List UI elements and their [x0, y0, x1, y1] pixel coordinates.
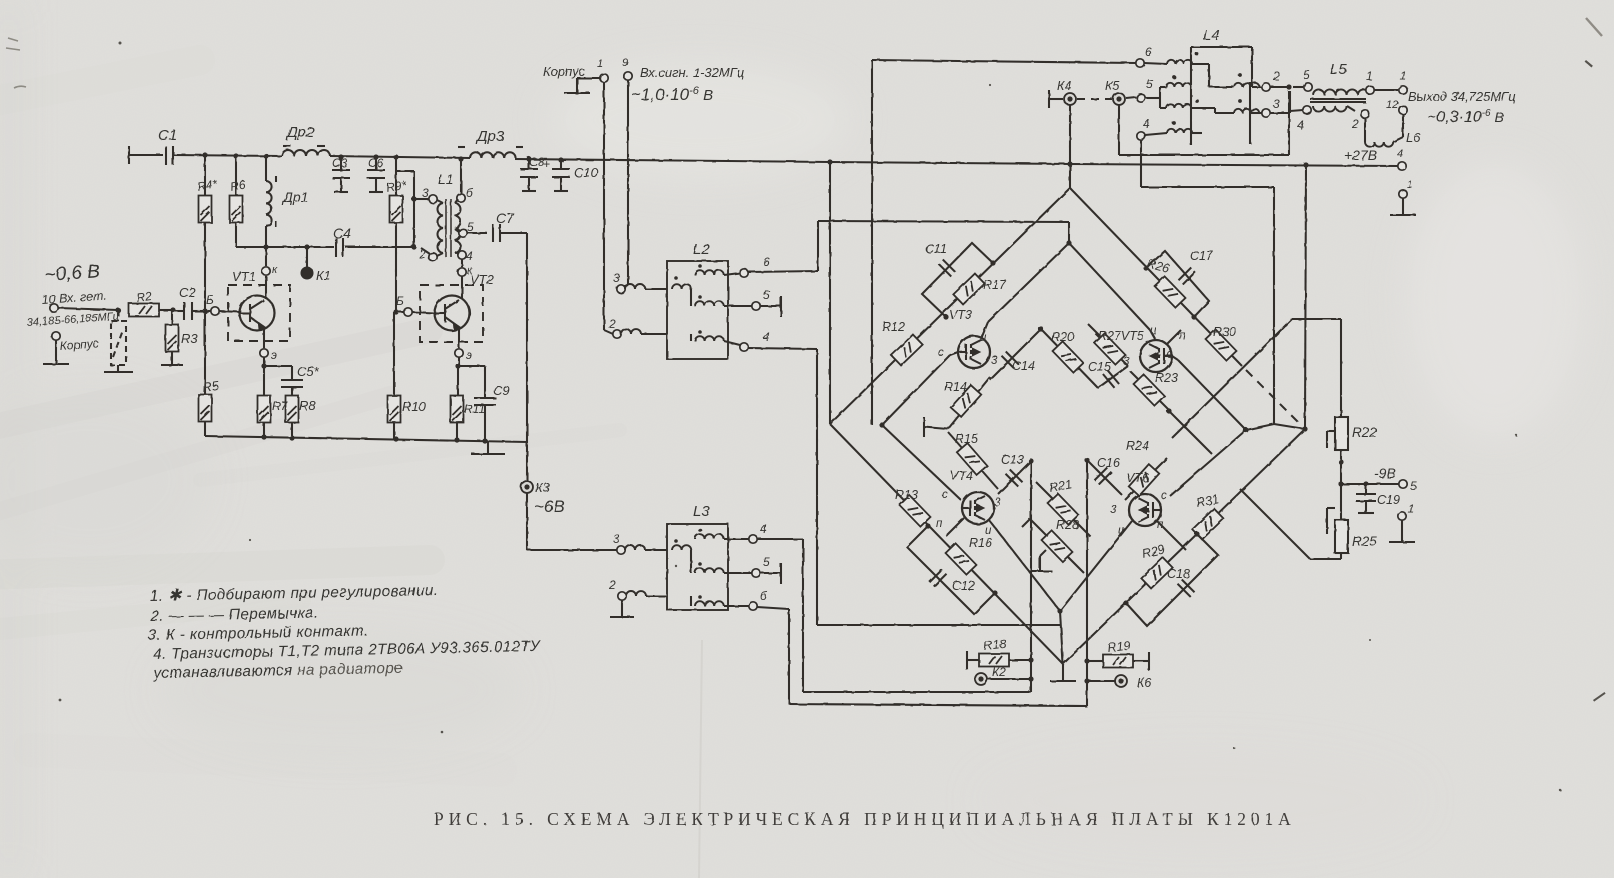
- svg-text:L3: L3: [693, 503, 710, 520]
- wire VT4 drain to bottom vertex: [989, 520, 1063, 614]
- capacitor C5*: [264, 366, 303, 396]
- wire outer edge bottom-right: [1063, 429, 1305, 664]
- svg-text:2. — — — Перемычка.: 2. — — — Перемычка.: [149, 604, 318, 625]
- transformer L5: [1310, 89, 1369, 111]
- svg-text:Выход 34,725МГц: Выход 34,725МГц: [1408, 89, 1516, 104]
- wire L2 pin4 drop: [817, 349, 1060, 625]
- svg-text:VТ3: VТ3: [949, 308, 972, 322]
- resistor R9: [390, 157, 403, 312]
- capacitor C16 chain: [1084, 457, 1122, 495]
- transformer L4 windings: [1166, 47, 1259, 145]
- wire L4 pin6 long drop: [871, 60, 873, 425]
- svg-text:-9В: -9В: [1374, 465, 1396, 481]
- corner scuff marks: [6, 18, 1602, 88]
- svg-text:с: с: [938, 347, 944, 359]
- capacitor C6: [367, 157, 385, 192]
- capacitor C4: [336, 238, 343, 257]
- capacitor C1: [166, 146, 282, 165]
- svg-text:1: 1: [1408, 502, 1415, 516]
- resistor R23 chain: [1130, 371, 1212, 454]
- svg-text:C10: C10: [574, 165, 599, 180]
- output pin 1: [1399, 86, 1407, 94]
- L5 secondary pin 2: [1361, 110, 1369, 142]
- L3 pin 2 with ground: [610, 591, 667, 617]
- svg-text:3: 3: [1110, 504, 1117, 516]
- wire outer edge top-left: [830, 188, 1070, 424]
- resistor R3: [161, 310, 183, 365]
- pin 5 right: [1399, 480, 1407, 488]
- svg-text:3: 3: [613, 532, 620, 546]
- capacitor C13 chain: [998, 458, 1034, 494]
- transformer L1: [437, 199, 460, 257]
- ground bottom vertex: [1050, 664, 1076, 681]
- contact K3: [521, 481, 533, 493]
- wire L4 bottom link: [1119, 91, 1289, 155]
- terminal Korpus top: [564, 74, 608, 93]
- capacitor C17: [1179, 268, 1196, 285]
- svg-text:Др3: Др3: [475, 128, 505, 145]
- svg-text:п: п: [1157, 519, 1164, 531]
- svg-text:C11: C11: [925, 242, 947, 256]
- wire inner edge to VT3: [981, 243, 1069, 339]
- inductor Dr3: [458, 147, 527, 158]
- svg-text:с: с: [1161, 490, 1167, 502]
- svg-text:~1,0·10-6 В: ~1,0·10-6 В: [631, 85, 713, 104]
- node inner top vertex: [1066, 240, 1071, 245]
- svg-text:C9: C9: [493, 383, 510, 398]
- mixer labels group: [882, 27, 1516, 690]
- svg-text:Корпус: Корпус: [59, 336, 99, 353]
- node below R22: [1338, 450, 1343, 520]
- svg-text:R10: R10: [402, 399, 427, 414]
- resistor R8: [286, 396, 299, 438]
- resistor R20 chain: [1041, 329, 1098, 388]
- resistor R21 chain: [1036, 482, 1090, 536]
- wire R22 riser: [1172, 319, 1341, 438]
- svg-text:C14: C14: [1012, 359, 1035, 373]
- svg-text:VT1: VT1: [232, 269, 256, 284]
- contact K5: [1113, 93, 1136, 105]
- resistor R18: [967, 651, 1034, 670]
- L1 pin 3: [411, 195, 443, 203]
- wire bus to +27V pin: [515, 159, 1398, 166]
- resistor R24 chain: [1125, 458, 1167, 500]
- wire inner edge left vertex to VT4: [882, 425, 961, 500]
- svg-text:C2: C2: [179, 285, 196, 300]
- svg-text:и: и: [980, 332, 987, 344]
- wire L3 pin4 path: [803, 461, 1031, 692]
- svg-text:п: п: [936, 518, 943, 530]
- jumper dashed box: [111, 310, 126, 372]
- svg-text:R19: R19: [1107, 639, 1131, 655]
- wire VT5 substrate stub: [1167, 330, 1181, 344]
- svg-text:R22: R22: [1352, 425, 1377, 440]
- L3 pin 5 stub: [724, 563, 781, 584]
- wire VT3 source to left vertex: [879, 352, 958, 428]
- wire right vertex region: [1246, 424, 1308, 432]
- loop capacitor C17 bypass: [1143, 251, 1209, 320]
- svg-text:L6: L6: [1406, 130, 1421, 145]
- L2 pin 5 stub: [724, 296, 781, 317]
- L1 pin 5: [455, 229, 487, 237]
- node small diamond apex: [1038, 326, 1043, 331]
- svg-text:2: 2: [1351, 117, 1359, 131]
- capacitor C8: [520, 156, 538, 191]
- svg-text:R17: R17: [983, 278, 1007, 292]
- resistor R7: [258, 396, 271, 438]
- svg-text:3: 3: [994, 497, 1001, 509]
- svg-text:R2: R2: [135, 289, 152, 305]
- terminal 9 input: [622, 72, 632, 287]
- svg-text:2: 2: [608, 578, 616, 592]
- loop capacitor C12 bypass: [907, 523, 998, 614]
- svg-text:R24: R24: [1126, 439, 1149, 453]
- svg-text:C1: C1: [158, 127, 177, 144]
- transistor VT3: [958, 336, 990, 368]
- resistor R25: [1327, 508, 1348, 553]
- node base junction dots: [202, 152, 416, 313]
- svg-text:L2: L2: [693, 241, 710, 258]
- L1 pin 2: [421, 248, 443, 261]
- inductor Dr1: [266, 156, 276, 247]
- wire R25 bottom return: [1240, 489, 1341, 559]
- svg-text:+27В: +27В: [1344, 147, 1377, 163]
- resistor R30 on outer edge: [1206, 329, 1237, 360]
- node VT1 emitter junction: [261, 363, 266, 396]
- svg-text:C12: C12: [952, 579, 975, 593]
- svg-text:R13: R13: [895, 488, 918, 502]
- svg-text:Корпус: Корпус: [543, 64, 586, 79]
- svg-text:3: 3: [613, 271, 620, 285]
- notes text block: [147, 580, 542, 682]
- svg-text:5: 5: [763, 288, 770, 302]
- svg-text:C17: C17: [1190, 249, 1214, 263]
- svg-text:C13: C13: [1001, 453, 1024, 467]
- svg-text:3: 3: [1123, 356, 1130, 368]
- resistor R29 on outer edge: [1141, 558, 1172, 589]
- svg-text:2: 2: [418, 247, 426, 261]
- svg-text:4: 4: [1143, 117, 1150, 131]
- svg-text:R7: R7: [272, 399, 289, 413]
- contact K1: [302, 247, 313, 279]
- resistor R2: [129, 304, 176, 317]
- ground bottom rail: [205, 436, 527, 454]
- svg-text:~6В: ~6В: [534, 497, 565, 516]
- svg-text:Др1: Др1: [281, 189, 308, 205]
- svg-text:5: 5: [1146, 77, 1153, 91]
- capacitor C18: [1178, 580, 1195, 597]
- VT1 base contact: [196, 307, 240, 315]
- dashed link K4 K5: [1077, 98, 1112, 100]
- VT1 emitter wire: [260, 328, 268, 366]
- svg-text:L1: L1: [438, 171, 454, 187]
- resistor R10: [388, 312, 401, 439]
- resistor R28 chain with ground: [1022, 519, 1084, 573]
- svg-text:3: 3: [991, 355, 998, 367]
- svg-text:R23: R23: [1155, 371, 1178, 385]
- wire C7 down to K3: [526, 233, 528, 550]
- svg-text:3: 3: [1273, 97, 1280, 111]
- svg-text:п: п: [1179, 330, 1186, 342]
- svg-text:с: с: [942, 489, 948, 501]
- svg-text:C15: C15: [1088, 360, 1111, 374]
- capacitor C14 chain: [990, 329, 1041, 380]
- wire L2 pin6 riser to inner top vertex: [818, 221, 1069, 271]
- svg-text:э: э: [271, 348, 277, 362]
- capacitor C9: [458, 366, 496, 441]
- resistor R19: [1084, 652, 1149, 671]
- +27V pin 4: [1398, 162, 1406, 170]
- svg-text:C3: C3: [332, 156, 348, 170]
- L4 pin 4: [1137, 132, 1274, 424]
- resistor R15: [948, 432, 998, 489]
- L5 secondary pin 1: [1366, 86, 1398, 94]
- wire bus drop to left vertex: [827, 159, 832, 424]
- wire top bus left segment: [129, 146, 163, 164]
- svg-text:5: 5: [1410, 479, 1417, 493]
- contact K2: [975, 673, 1034, 685]
- wire VT6 substrate stub: [1157, 521, 1186, 550]
- wire VT6 drain to bottom vertex: [1060, 521, 1132, 611]
- svg-text:4: 4: [1397, 148, 1403, 160]
- capacitor C15 chain: [1098, 366, 1128, 388]
- resistor R4: [199, 155, 212, 311]
- wire -9V out: [1341, 481, 1399, 486]
- svg-text:C7: C7: [496, 210, 515, 226]
- left-side smudge streaks: [0, 60, 620, 770]
- resistor R12 on outer edge: [891, 335, 922, 366]
- L2 pin 3: [617, 284, 667, 293]
- terminal Korpus input: [43, 332, 69, 364]
- svg-text:R28: R28: [1056, 518, 1079, 532]
- L1 pin 6: [455, 156, 465, 203]
- wire bottom inner vertex to outer bottom: [1060, 611, 1063, 664]
- svg-text:R18: R18: [983, 637, 1007, 653]
- L2 pin 4: [724, 341, 817, 351]
- L4 pin 2: [1252, 83, 1303, 91]
- pin 1 right with ground: [1389, 512, 1415, 542]
- wire K3 to L3: [527, 549, 617, 551]
- svg-text:К2: К2: [992, 665, 1006, 679]
- wire inner edge right vertex to VT6: [1170, 430, 1246, 496]
- ground jumper: [104, 371, 133, 373]
- svg-text:R14: R14: [944, 380, 967, 394]
- svg-text:VТ6: VТ6: [1126, 471, 1149, 485]
- connector pin 4 out: [1303, 106, 1311, 114]
- svg-text:к: к: [272, 264, 278, 276]
- svg-text:Др2: Др2: [285, 124, 315, 141]
- svg-text:1: 1: [1366, 69, 1373, 83]
- resistor R6: [230, 156, 243, 247]
- contact k VT2: [458, 268, 466, 299]
- svg-text:12: 12: [1386, 99, 1398, 111]
- svg-text:К6: К6: [1137, 676, 1151, 690]
- svg-text:К5: К5: [1105, 79, 1119, 93]
- wire bus drop to right vertex: [1303, 162, 1308, 429]
- svg-text:4: 4: [763, 330, 770, 344]
- capacitor C10 polarized: [552, 157, 570, 191]
- svg-text:C16: C16: [1097, 456, 1120, 470]
- wire L3 pin6 path: [789, 460, 1087, 706]
- svg-text:C4: C4: [333, 225, 351, 241]
- resistor R17 on outer edge: [953, 274, 984, 305]
- L3 pin 3: [617, 545, 667, 554]
- svg-text:4: 4: [760, 522, 767, 536]
- wire bus: [330, 156, 470, 158]
- capacitor C3: [332, 157, 350, 192]
- svg-text:VТ4: VТ4: [950, 469, 973, 483]
- L3 pin 4: [724, 535, 803, 543]
- svg-text:К3: К3: [535, 480, 551, 495]
- svg-text:C18: C18: [1167, 567, 1190, 581]
- L2 pin 6: [724, 269, 818, 277]
- transistor VT5: [1140, 340, 1172, 372]
- transistor VT1 dashed box: [228, 285, 290, 341]
- L4 pin 5: [1137, 87, 1166, 108]
- resistor R22: [1327, 417, 1348, 450]
- wire outer edge top-right solid part: [1070, 188, 1242, 366]
- connector pin 5 out: [1304, 83, 1312, 91]
- svg-text:L4: L4: [1203, 27, 1220, 44]
- svg-text:9: 9: [622, 57, 628, 69]
- transformer L3 box: [667, 524, 728, 610]
- svg-text:1: 1: [597, 58, 603, 70]
- wire C4 row: [236, 246, 414, 248]
- ground bar mid-left with stub: [924, 417, 948, 437]
- svg-text:R11: R11: [464, 402, 485, 416]
- L3 pin 6: [724, 602, 789, 610]
- capacitor C7: [493, 224, 527, 242]
- contact K6: [1084, 675, 1127, 687]
- svg-text:R20: R20: [1051, 330, 1074, 344]
- wire terminal 1 down to L2 pin2: [604, 82, 613, 334]
- resistor R27 with bar stub: [1088, 324, 1128, 366]
- svg-text:6: 6: [763, 255, 770, 269]
- svg-text:Вх.сигн. 1-32МГц: Вх.сигн. 1-32МГц: [640, 65, 744, 80]
- svg-text:+: +: [543, 157, 550, 171]
- loop capacitor C11 bypass: [922, 243, 996, 320]
- capacitor C11: [939, 260, 956, 277]
- resistor R31 on outer edge: [1192, 509, 1223, 540]
- svg-text:C6: C6: [368, 156, 384, 170]
- resistor R11: [451, 396, 464, 441]
- svg-text:2: 2: [1272, 69, 1280, 83]
- transistor VT2 dashed box: [420, 285, 483, 342]
- svg-text:4: 4: [1297, 118, 1304, 132]
- capacitor C12: [930, 570, 947, 587]
- svg-text:VT2: VT2: [470, 272, 495, 287]
- svg-text:R16: R16: [969, 536, 992, 550]
- L2 pin 2: [613, 329, 667, 338]
- transistor VT4: [962, 492, 994, 524]
- transistor VT6: [1129, 494, 1161, 526]
- wire VT5 source to right vertex: [1172, 356, 1249, 433]
- svg-text:2: 2: [608, 317, 616, 331]
- svg-text:R30: R30: [1213, 325, 1236, 339]
- transistor VT2: [435, 296, 470, 331]
- svg-text:5: 5: [467, 220, 474, 234]
- pin 1 ground right: [1390, 190, 1416, 215]
- resistor R16 on outer edge: [946, 543, 977, 574]
- svg-text:Б: Б: [206, 293, 214, 307]
- svg-text:6: 6: [1145, 45, 1152, 59]
- svg-text:C19: C19: [1377, 493, 1400, 507]
- svg-text:К4: К4: [1057, 79, 1071, 93]
- resistor R26 on outer edge: [1155, 276, 1186, 307]
- svg-text:РИС. 15. СХЕМА ЭЛЕКТРИЧЕСКАЯ П: РИС. 15. СХЕМА ЭЛЕКТРИЧЕСКАЯ ПРИНЦИПИАЛЬ…: [434, 809, 1296, 829]
- transistor VT1: [240, 296, 275, 331]
- svg-text:1: 1: [1400, 69, 1407, 83]
- inductor L6: [1365, 137, 1403, 147]
- L2 windings: [672, 264, 724, 341]
- VT2 emitter: [455, 328, 463, 396]
- resistor R14: [948, 377, 990, 429]
- svg-text:1: 1: [1407, 179, 1413, 191]
- svg-text:R12: R12: [882, 320, 905, 334]
- svg-text:C5*: C5*: [297, 364, 320, 379]
- transformer L2 box: [667, 261, 728, 359]
- svg-text:и: и: [1118, 525, 1125, 537]
- resistor R13 on outer edge: [900, 495, 931, 526]
- svg-text:R5: R5: [201, 378, 220, 395]
- L3 windings: [672, 528, 724, 606]
- svg-text:R15: R15: [955, 432, 978, 446]
- svg-text:с: с: [1167, 349, 1173, 361]
- svg-text:R25: R25: [1352, 534, 1377, 549]
- svg-text:3: 3: [422, 186, 429, 200]
- svg-text:5: 5: [1303, 68, 1310, 82]
- capacitor C19: [1356, 484, 1376, 513]
- input terminal circle: [50, 304, 121, 313]
- svg-text:и: и: [1150, 325, 1157, 337]
- capacitor C2: [173, 302, 196, 320]
- svg-text:К1: К1: [316, 268, 331, 283]
- paper crease: [699, 640, 702, 878]
- svg-text:R8: R8: [299, 398, 316, 413]
- wire jog R9 top to C4 line: [396, 171, 414, 247]
- svg-text:4: 4: [466, 249, 473, 263]
- svg-text:Б: Б: [396, 294, 404, 308]
- L4 pin 6: [872, 59, 1167, 67]
- svg-text:R3: R3: [181, 331, 198, 346]
- VT2 base contact: [393, 308, 435, 316]
- resistor R5: [199, 311, 212, 436]
- wire outer edge top-right dashed tail: [1246, 370, 1301, 425]
- L1 pin 4: [455, 251, 466, 267]
- output pin 12: [1399, 106, 1407, 137]
- svg-text:R6: R6: [229, 177, 247, 194]
- svg-text:L5: L5: [1330, 61, 1347, 78]
- svg-text:~0,3·10-6 В: ~0,3·10-6 В: [1427, 108, 1504, 126]
- contact K4 with bar: [1049, 90, 1076, 108]
- svg-text:R27VТ5: R27VТ5: [1098, 329, 1144, 343]
- inductor Dr2: [282, 146, 330, 156]
- svg-text:э: э: [466, 348, 472, 362]
- loop capacitor C18 bypass: [1123, 531, 1218, 626]
- svg-text:5: 5: [763, 555, 770, 569]
- svg-text:~0,6 В: ~0,6 В: [44, 261, 101, 286]
- wire K4 drop to top vertex: [1067, 103, 1072, 188]
- wire bottom rail left stage: [261, 434, 487, 443]
- wire VT4 substrate stub: [946, 518, 964, 536]
- wire inner edge to VT5: [1069, 243, 1155, 339]
- VT1 collector wire and contact k: [262, 247, 270, 299]
- wire outer edge bottom-left: [830, 424, 1063, 664]
- L4 pin 3: [1250, 91, 1303, 117]
